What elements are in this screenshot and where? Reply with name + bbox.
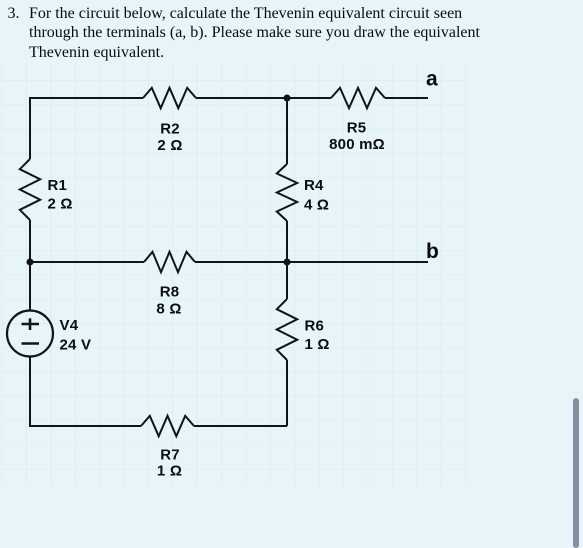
- svg-text:R5: R5: [347, 120, 367, 137]
- svg-text:R6: R6: [305, 318, 325, 335]
- svg-text:R8: R8: [160, 284, 180, 301]
- wire middle rail left segment (left node to R8): [30, 261, 144, 263]
- voltage source V4: [7, 311, 53, 357]
- svg-text:R1: R1: [48, 177, 68, 194]
- resistor R4: [277, 164, 297, 221]
- svg-text:V4: V4: [60, 317, 79, 334]
- svg-text:1 Ω: 1 Ω: [305, 336, 330, 353]
- wire middle rail (center node to R6): [286, 262, 288, 299]
- svg-text:R7: R7: [160, 447, 180, 464]
- wire middle rail (R4 to middle node): [286, 221, 288, 262]
- wire bottom rail (R7 to bottom-right corner): [194, 425, 287, 427]
- svg-text:8 Ω: 8 Ω: [156, 301, 181, 318]
- junction node top (x=287, y=98): [284, 95, 291, 102]
- svg-text:4 Ω: 4 Ω: [304, 197, 329, 214]
- resistor R8: [144, 252, 195, 272]
- wire top rail left segment (top-left corner to R2): [30, 98, 143, 159]
- svg-text:2 Ω: 2 Ω: [48, 196, 73, 213]
- wire middle rail (R6 to bottom corner): [286, 360, 288, 426]
- junction node left-middle (x=30, y=262): [27, 259, 34, 266]
- svg-text:b: b: [426, 240, 439, 263]
- resistor R6: [277, 299, 297, 360]
- resistor R1: [20, 159, 40, 220]
- wire left rail (R1 to middle node): [29, 220, 31, 262]
- wire left rail (node to V4): [29, 262, 31, 311]
- svg-text:800 mΩ: 800 mΩ: [329, 136, 385, 153]
- wire middle segment (R8 to center node): [195, 261, 287, 263]
- resistor R2: [143, 88, 196, 108]
- svg-text:R4: R4: [304, 177, 324, 194]
- svg-text:1 Ω: 1 Ω: [157, 463, 182, 480]
- svg-text:2 Ω: 2 Ω: [157, 137, 182, 154]
- svg-text:a: a: [426, 68, 438, 91]
- wire top rail segment (node to R5): [287, 97, 331, 99]
- wire to terminal b: [287, 261, 428, 263]
- svg-text:24 V: 24 V: [60, 337, 92, 354]
- resistor R5: [331, 88, 385, 108]
- junction node center (x=287, y=262): [284, 259, 291, 266]
- wire top rail middle segment (R2 to node at x=287): [196, 97, 287, 99]
- wire left rail (V4 to bottom-left corner): [30, 357, 141, 427]
- resistor R7: [141, 416, 194, 436]
- wire to terminal a: [385, 97, 428, 99]
- svg-text:R2: R2: [160, 121, 180, 138]
- wire middle rail (top node to R4): [286, 98, 288, 164]
